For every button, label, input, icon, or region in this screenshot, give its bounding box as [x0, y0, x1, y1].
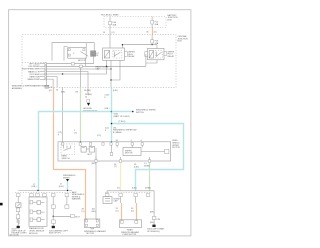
svg-text:(BK): (BK) — [61, 91, 65, 93]
svg-text:WASH LO HI: WASH LO HI — [28, 70, 40, 73]
gray wire to washer pump — [95, 162, 97, 219]
orange wires to rear pump — [121, 203, 123, 221]
svg-text:(T BLU): (T BLU) — [118, 121, 125, 123]
cyan branch left — [39, 112, 112, 191]
middle switch chain — [52, 197, 81, 229]
fuse F6 — [151, 40, 159, 45]
connector bracket — [46, 64, 48, 86]
svg-text:SIDE OF I/P): SIDE OF I/P) — [49, 233, 61, 235]
svg-text:WASH PUMP: WASH PUMP — [28, 78, 41, 81]
svg-text:(C2): (C2) — [97, 135, 101, 137]
motor brushes — [81, 146, 94, 152]
svg-text:(O): (O) — [112, 32, 115, 34]
svg-text:RELAY: RELAY — [168, 55, 175, 58]
left multifunction switch chain — [16, 197, 21, 229]
svg-text:MOT: MOT — [75, 216, 80, 218]
cyan branch lower right — [112, 124, 184, 191]
switch row wires — [47, 56, 94, 63]
svg-text:MOTOR: MOTOR — [125, 153, 133, 155]
wire feed bus — [122, 44, 157, 46]
svg-text:(Y): (Y) — [114, 166, 117, 168]
svg-text:INT DELAY: INT DELAY — [30, 73, 41, 76]
svg-text:MOTOR: MOTOR — [87, 233, 95, 235]
svg-text:(P): (P) — [76, 91, 79, 93]
relay2 output wire — [145, 54, 147, 66]
svg-text:MOTOR: MOTOR — [78, 60, 86, 62]
right ground chain — [150, 191, 161, 227]
svg-text:(O): (O) — [116, 210, 119, 212]
connector pins left column — [45, 63, 47, 80]
green wire from switch row — [80, 68, 82, 88]
svg-text:SWITCH: SWITCH — [62, 158, 70, 160]
svg-text:ENGINE COMP): ENGINE COMP) — [12, 233, 27, 235]
svg-text:(GRN): (GRN) — [144, 165, 150, 167]
svg-text:RELAY: RELAY — [128, 55, 135, 58]
green wire down — [149, 162, 151, 190]
park switch (dashed) — [61, 144, 75, 155]
washer pump motor — [84, 219, 100, 229]
bottom left connector bus — [18, 190, 72, 192]
fuse F34 — [109, 17, 117, 27]
svg-text:(Y): (Y) — [74, 132, 77, 134]
svg-text:(GRN): (GRN) — [145, 188, 151, 190]
yellow wire down — [120, 162, 122, 190]
bus pin boxes right — [119, 194, 123, 197]
run relay K1 — [103, 48, 128, 60]
page edge tick — [0, 203, 3, 206]
off page reference stub — [59, 175, 76, 191]
svg-text:(BK): (BK) — [150, 211, 154, 213]
svg-text:(LBL): (LBL) — [32, 186, 37, 188]
svg-text:PUMP MOTOR: PUMP MOTOR — [123, 234, 137, 236]
small component left — [103, 191, 112, 204]
svg-text:(LBL): (LBL) — [105, 108, 110, 110]
svg-text:WASHER: WASHER — [72, 198, 81, 201]
svg-text:(LBL): (LBL) — [132, 188, 137, 190]
small cap component — [65, 197, 69, 209]
wire fuse F2 down — [151, 24, 153, 28]
svg-text:OFF DELAY: OFF DELAY — [29, 63, 41, 66]
svg-text:CAP: CAP — [114, 200, 119, 203]
svg-text:WINDSHIELD WIPER/WASHER SWITCH: WINDSHIELD WIPER/WASHER SWITCH — [12, 85, 50, 88]
central junction box (dashed) — [22, 35, 176, 88]
hi/lo relay K2 — [145, 48, 167, 59]
svg-text:B. WASH: B. WASH — [113, 131, 122, 134]
svg-text:(O): (O) — [49, 90, 52, 92]
wiper switch pin rows — [22, 63, 41, 82]
svg-text:CAP: CAP — [96, 68, 101, 71]
internal stubs — [95, 148, 97, 160]
svg-text:MODULE: MODULE — [29, 233, 38, 235]
svg-text:(BK): (BK) — [92, 163, 96, 165]
svg-text:(O): (O) — [131, 210, 134, 212]
module bottom pins — [95, 160, 97, 163]
svg-text:28 (BK): 28 (BK) — [84, 90, 91, 92]
relay1 output wires — [110, 60, 112, 87]
node dots — [122, 44, 124, 46]
svg-text:(LBL): (LBL) — [134, 166, 139, 168]
rear washer pump box — [120, 220, 142, 228]
connector C2 box — [45, 85, 49, 88]
svg-text:BOX: BOX — [178, 41, 183, 43]
module top pins — [62, 143, 144, 146]
svg-text:PARK RUN: PARK RUN — [30, 76, 41, 79]
bus pin boxes — [16, 194, 20, 197]
cyan wire LBL main — [111, 87, 113, 142]
svg-text:HOT AT ALL TIMES: HOT AT ALL TIMES — [101, 13, 119, 16]
green wire to motor — [80, 87, 82, 142]
svg-text:(PART OF 14401): (PART OF 14401) — [114, 115, 130, 118]
svg-text:(LBL): (LBL) — [113, 90, 118, 92]
svg-text:(BK): (BK) — [92, 211, 96, 213]
battery junction box (dashed) — [104, 17, 166, 28]
svg-text:SWITCH: SWITCH — [136, 112, 144, 114]
svg-text:(BK): (BK) — [150, 222, 154, 224]
connector C228 (shaded) — [91, 51, 96, 57]
svg-text:BOX: BOX — [168, 19, 173, 21]
svg-text:(O): (O) — [154, 31, 157, 33]
cyan branch right short — [112, 111, 133, 113]
svg-text:ASSEMBLY: ASSEMBLY — [12, 87, 23, 90]
wiper motor sub box — [123, 148, 141, 156]
front washer motor box — [29, 197, 47, 226]
wiper park switch assembly (in CJB) — [52, 43, 94, 62]
wire fuse F6 to bus — [151, 43, 153, 45]
wire fuse F34 down — [109, 25, 111, 48]
stubs to orange — [120, 197, 122, 204]
svg-text:(LBL): (LBL) — [59, 186, 64, 188]
page frame — [9, 10, 191, 236]
svg-text:MOT: MOT — [88, 154, 93, 156]
gray wire BK to motor — [62, 87, 64, 142]
wiper motor module box — [58, 142, 171, 161]
wire orange segment — [152, 28, 154, 34]
off page arrow column — [83, 94, 98, 113]
bottom right connector bus — [107, 190, 154, 192]
orange wire main — [54, 87, 86, 219]
svg-text:OF VEHICLE): OF VEHICLE) — [147, 231, 160, 233]
svg-text:(O): (O) — [82, 211, 85, 213]
right edge pin — [141, 151, 165, 153]
svg-text:MOTOR: MOTOR — [172, 147, 180, 149]
svg-text:(Y): (Y) — [117, 188, 120, 190]
fuse F2 — [151, 17, 159, 26]
